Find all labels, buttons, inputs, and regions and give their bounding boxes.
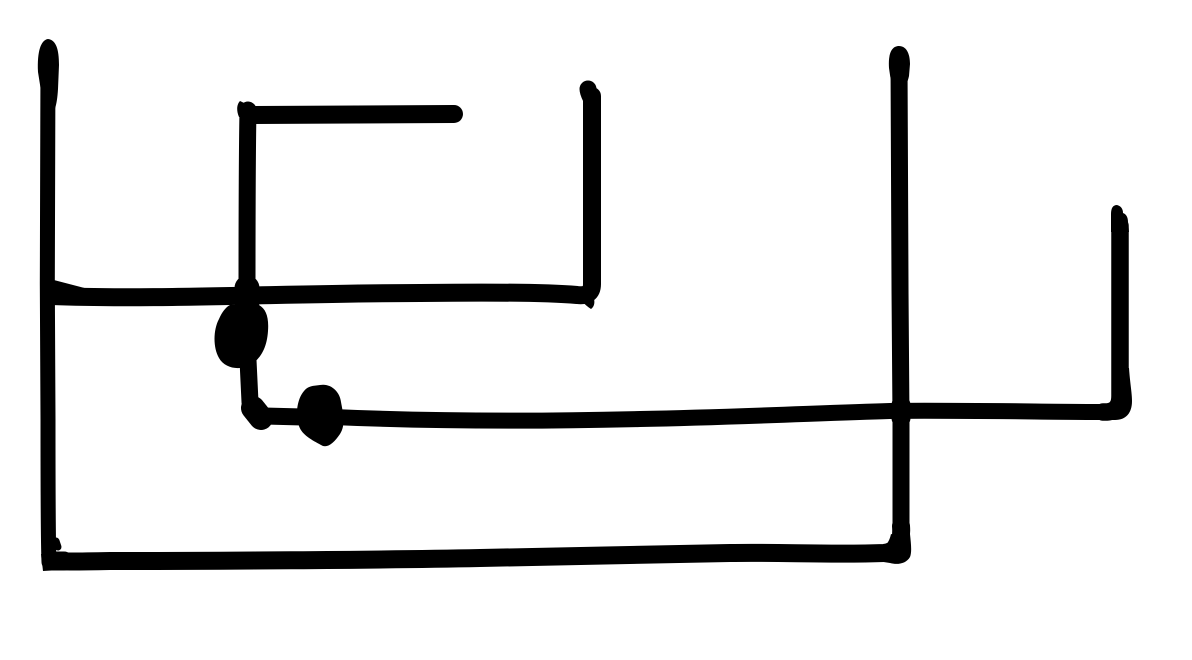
wire: vertical branch down from top horizontal through crossover [246,110,248,330]
wire: upper-middle horizontal from left bus to tall right stub [50,89,594,309]
junction: solder blob on lower horizontal [297,385,344,447]
junction: solder blob at crossover node [215,305,269,368]
wire: tall center-right vertical [889,46,910,538]
wire: bottom return horizontal [41,526,911,571]
wire: long lower horizontal to the right edge stub [333,411,1110,421]
wire: left vertical bus [38,39,59,562]
wire: short elbow from junction down and right [248,360,303,418]
wire: top horizontal stub [237,101,454,117]
wire: right-edge vertical stub with corner [1102,205,1132,420]
